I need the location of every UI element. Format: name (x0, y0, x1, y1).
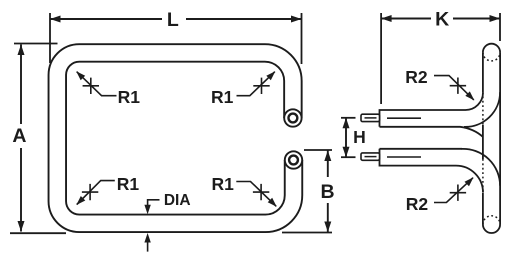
radius callout R2 upper (434, 76, 474, 100)
dimension L (49, 13, 51, 63)
radius callout R1 bottom-right (236, 182, 276, 207)
upper terminal end circle (284, 109, 301, 126)
radius callout R1 top-right (237, 72, 275, 96)
svg-text:K: K (435, 9, 449, 31)
lower bend outer arc sweeping to right edge (462, 149, 501, 186)
radius callout R1 bottom-left (77, 181, 115, 205)
upper terminal tube, side view (380, 93, 484, 127)
radius callout R2 lower (434, 178, 473, 203)
lower terminal tube, side view (380, 149, 484, 193)
DIA callout (148, 200, 160, 207)
svg-text:R1: R1 (211, 87, 234, 107)
dimension B (304, 149, 332, 151)
svg-text:R1: R1 (212, 174, 235, 194)
svg-text:B: B (321, 181, 335, 203)
lower tube inner line (387, 156, 421, 158)
vertical tube right edge (499, 52, 501, 224)
svg-text:R2: R2 (406, 194, 429, 214)
DIA lower arrow (147, 238, 149, 252)
heating element tube, front view (57, 53, 293, 223)
dimension A (14, 43, 58, 45)
svg-text:H: H (353, 127, 366, 147)
svg-text:A: A (12, 125, 26, 147)
upper bend outer arc sweeping to right edge (464, 92, 500, 127)
svg-text:DIA: DIA (164, 192, 191, 209)
svg-text:R2: R2 (405, 67, 428, 87)
upper tube inner line (387, 117, 421, 119)
side view: vertical tube (loop edge-on) (483, 44, 500, 53)
dimension H (341, 117, 356, 119)
svg-text:R1: R1 (117, 174, 140, 194)
upper terminal pin (361, 114, 380, 121)
svg-text:R1: R1 (118, 87, 141, 107)
lower terminal pin (361, 153, 380, 160)
vertical tube left edge segments (482, 52, 484, 92)
lower terminal end circle (285, 151, 302, 168)
radius callout R1 top-left (77, 72, 117, 96)
dimension K (380, 13, 382, 104)
svg-text:L: L (167, 9, 179, 31)
